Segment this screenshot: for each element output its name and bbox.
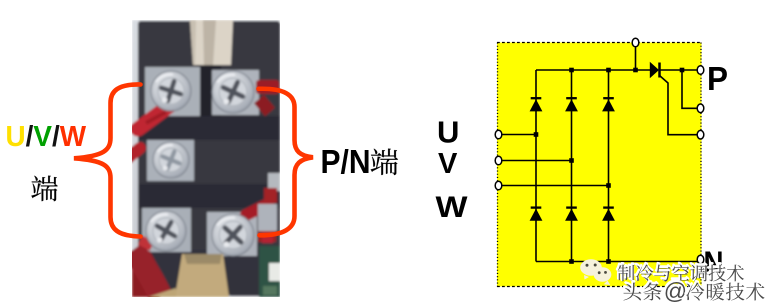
wire top bus (P rail) [536,69,650,71]
yellow background [497,43,702,287]
bottom tan block [175,254,229,297]
screw terminal V [153,142,189,178]
watermark chat bubbles [580,259,611,285]
photo of IPM power module terminal block [128,20,280,297]
junction V-leg2 [569,158,574,163]
wire P aux branch [682,70,698,108]
wire SCR gate branch [660,76,698,135]
red wire bottom-right stub [246,204,268,215]
junction leg2-bottom [569,259,574,264]
diode D1 (top leg1) [530,98,543,111]
junction leg3-top [606,68,611,73]
junction leg3-bottom [606,259,611,264]
SCR / thyristor (P rail) [650,62,660,78]
wire leg 1 (U phase) [535,70,537,262]
junction P-aux [680,68,685,73]
shadow gaps [138,116,280,140]
terminal V [495,156,502,165]
border right (dotted) [700,43,702,287]
module dark body [138,21,280,256]
screw terminal P [212,71,254,113]
red wire upper-left (spade connector) [138,106,169,129]
svg-text:P/N: P/N [321,144,371,181]
red wire left-middle stub [128,148,140,158]
screw plates [145,67,200,116]
terminal N [697,255,704,264]
green pcb bottom right [268,173,280,191]
watermark text line 2: 头条 @冷暖技术 [623,281,641,299]
junction leg2-top [569,68,574,73]
junction W-leg3 [606,183,611,188]
beige top connector [190,20,233,65]
diode D4 (bottom leg1) [530,208,543,221]
label 端 (left) [31,176,57,202]
svg-text:U/V/W: U/V/W [6,121,87,153]
border bottom (dashed) [497,286,702,288]
screw terminal U [151,71,191,111]
wire leg 2 (V phase) [571,70,573,262]
junction U-leg1 [534,132,539,137]
border top (dashed) [497,42,702,44]
terminal P [697,66,704,75]
svg-text:W: W [436,191,469,224]
screw terminal N [212,214,254,256]
terminal top [632,38,639,47]
watermark text line 1: 制冷与空调技术 [617,263,634,280]
left brace { [74,84,141,236]
wire W input [502,185,609,187]
terminal P-aux1 [697,104,704,113]
wire top terminal drop [635,47,637,71]
junction top-terminal [633,68,638,73]
right brace } [259,89,314,236]
wire bottom bus (N rail) [536,261,699,263]
screw terminal W [146,211,186,251]
terminal W [495,181,502,190]
wire U input [502,134,536,136]
red wire bottom-left (thick cable) [132,251,174,297]
svg-text:V: V [438,148,458,180]
terminal U [495,130,502,139]
diode D6 (bottom leg3) [602,208,615,221]
wire leg 3 (W phase) [608,70,610,262]
terminal gate [697,130,704,139]
red wire upper-right to edge [256,80,279,94]
diode D3 (top leg3) [602,98,615,111]
wire V input [502,160,572,162]
svg-text:P: P [707,61,728,98]
svg-text:@: @ [664,278,687,304]
diode D5 (bottom leg2) [565,208,578,221]
border left (dotted) [497,43,499,287]
svg-text:U: U [437,115,459,150]
diode D2 (top leg2) [565,98,578,111]
wire SCR cathode to P terminal [660,69,699,71]
